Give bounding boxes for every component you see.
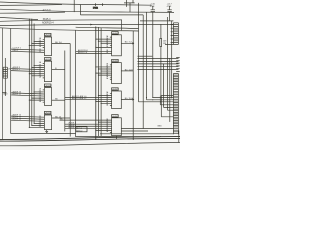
IC U5 pins (95, 35, 111, 48)
IC U8 label box (112, 115, 119, 118)
capacitor C1 (150, 4, 156, 98)
IC U1 pins (29, 37, 45, 48)
wire bus row to J3 no.6 (138, 69, 179, 70)
wire U1 input row 1 (11, 48, 45, 51)
wire U8 input row 2 (65, 122, 112, 125)
svg-text:RES 1: RES 1 (13, 50, 20, 52)
wire bus row to J3 no.1 (138, 55, 153, 57)
svg-text:PA 3-2: PA 3-2 (81, 97, 88, 100)
wire U3 input row 2 (11, 92, 45, 96)
wire L-drop v7 x163.5 (164, 64, 174, 108)
wire L-drop v5 x160.9 (161, 24, 174, 95)
wire U3 output B0 (52, 99, 65, 101)
vertical line x169.8 (169, 59, 171, 122)
svg-text:DW2: DW2 (93, 8, 99, 10)
wire U4 output B0.15 (52, 116, 71, 118)
wire U2 input row 2 (11, 68, 45, 72)
vertical bus A (left column) (28, 19, 30, 128)
wire bottom right rows (100, 128, 173, 134)
wire L-drop v1 x138.5 (139, 12, 174, 102)
wire L-drop v2 x143.2 (143, 15, 173, 129)
vertical bus D (middle column) (95, 27, 97, 140)
wire L-drop v3 x146.5 (147, 12, 174, 100)
svg-text:B0. 3-0: B0. 3-0 (55, 42, 63, 44)
svg-text:ADDR 14: ADDR 14 (13, 118, 22, 121)
wire U5 output B0.7-4 (121, 42, 134, 45)
wire left page border (1, 28, 3, 140)
IC U8 pins (95, 121, 111, 133)
connector J2 (165, 23, 178, 45)
svg-text:B0. 15-8: B0. 15-8 (125, 98, 134, 100)
wire bus row to J3 no.3 (138, 61, 179, 62)
connector J3 right-edge stubs (176, 58, 180, 72)
svg-text:103: 103 (163, 41, 167, 43)
wire U8 input row 4 (65, 126, 112, 129)
svg-text:GND: GND (157, 126, 162, 128)
IC U5 label box (112, 32, 119, 35)
vertical line x171.7 (171, 21, 173, 99)
svg-text:ADDR 7-0: ADDR 7-0 (78, 51, 88, 54)
wire U7 output B0.15-8 (121, 98, 134, 101)
svg-text:B0. 7-4: B0. 7-4 (125, 42, 133, 44)
IC U4 pins (29, 122, 45, 128)
svg-text:A D 7-0: A D 7-0 (43, 9, 52, 12)
IC U6 label box (112, 59, 119, 62)
net table box (76, 127, 87, 133)
wire L-drop v6b x160.3 (160, 96, 173, 105)
wire top bus line 1 AD7-0 (0, 2, 152, 5)
wire L-drop v8 x167.5 (168, 17, 174, 110)
wire top bus line 4 (0, 12, 65, 13)
IC U3 label box (44, 84, 51, 87)
wire top bus line 3 (0, 9, 174, 12)
svg-text:ADDR 6: ADDR 6 (69, 126, 77, 129)
wire top bus line 6 ADDR15-4 (0, 24, 173, 25)
left block frame (0, 28, 96, 137)
wire right horizontal at y21 (140, 20, 173, 22)
wire U2 input row 1 (11, 66, 45, 70)
vertical net line Va (64, 51, 66, 132)
wire U2 output B (52, 68, 65, 70)
svg-text:ADDR15-4: ADDR15-4 (42, 21, 54, 24)
wire bend from box top into middle column (76, 29, 139, 32)
wire bus row to J3 no.2 (138, 58, 179, 59)
svg-text:BA15-0: BA15-0 (76, 129, 82, 132)
vertical bus C (left column) (33, 24, 35, 124)
wire U8 input row 3 (65, 124, 112, 127)
wire bottom bus line 1 (0, 137, 180, 140)
wire right edge vertical stub (178, 131, 180, 143)
wire top bus line 2 (0, 4, 62, 7)
wire L-drop v6 x161.3 lower (161, 96, 173, 117)
svg-text:+C17: +C17 (167, 4, 173, 6)
wire U5 input row 1 (76, 49, 112, 52)
vertical bus E (middle column) (97, 27, 99, 136)
vertical bus B (left column) (31, 19, 33, 126)
wire U4 input row 3 (11, 118, 45, 122)
IC U4 label box (44, 111, 51, 114)
wire vertical drop from top edge (73, 0, 75, 12)
svg-text:B0. 11-8: B0. 11-8 (125, 69, 134, 71)
vertical bus G (right of middle column) (132, 31, 134, 141)
IC U2 pins (29, 61, 45, 78)
wire U6 output B0.11-8 (121, 69, 133, 71)
wire bottom connector row (96, 136, 161, 138)
ground U4 (45, 130, 48, 133)
wire U8 bottom stub (115, 136, 117, 140)
capacitor C2 (167, 4, 173, 21)
wire U7 input row 1 (65, 95, 112, 98)
wire bus row to J3 no.5 (138, 66, 179, 67)
junction dots staircase (146, 97, 168, 108)
wire U5 input row 2 (76, 51, 112, 54)
wire U8 input row 1 (60, 119, 112, 121)
svg-text:ADDR 9: ADDR 9 (13, 68, 21, 71)
wire top bus line 5 (0, 17, 38, 19)
svg-text:GND: GND (3, 94, 8, 96)
oscillator X1 at top edge (124, 0, 139, 12)
IC U2 label box (44, 58, 51, 61)
connector J3 (173, 74, 178, 135)
wire L-drop v4 x152.3 (C1 lead) (152, 97, 173, 99)
wire bus row to J3 no.4 (138, 63, 179, 64)
wire branch y15 (81, 5, 144, 15)
wire bottom bus line 2 (0, 138, 180, 141)
connector J1 left edge (2, 58, 11, 96)
resistor R1 (160, 39, 167, 47)
wire U7 input row 2 (65, 97, 112, 100)
svg-text:1A: 1A (106, 77, 109, 80)
wire U4 input row 2 (11, 116, 45, 120)
ferrite bead FB1 on AD bus (93, 3, 104, 9)
wire U3 input row 1 (11, 90, 45, 94)
IC U3 pins (29, 88, 45, 103)
IC U7 pins (95, 91, 111, 106)
IC U7 label box (112, 88, 119, 91)
vertical bus F (middle column) (100, 28, 102, 137)
wire bend from top bus into middle column (76, 27, 139, 28)
svg-text:ADDR 11: ADDR 11 (13, 92, 22, 95)
svg-text:+C16: +C16 (150, 4, 156, 6)
arrowhead on bus (90, 24, 92, 26)
IC U6 pins (95, 63, 111, 80)
wire U1 output B0.3-0 (52, 42, 71, 44)
wire U1 input row 2 (11, 50, 45, 53)
IC U1 label box (44, 33, 51, 36)
wire top bus line 5b PA15-4 (0, 20, 122, 30)
wire bottom bus line 3 (0, 143, 180, 146)
vertical net line Vb (69, 44, 71, 137)
wire U4 input row 1 (11, 114, 45, 118)
